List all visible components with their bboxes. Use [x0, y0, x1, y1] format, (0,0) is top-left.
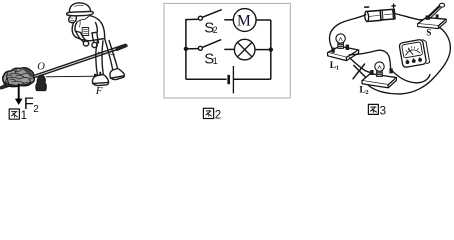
wire top branch left — [185, 18, 198, 20]
label S2 — [204, 20, 217, 37]
battery pack — [364, 4, 395, 22]
lamp L1 — [328, 34, 359, 61]
fulcrum — [36, 75, 47, 90]
svg-text:3: 3 — [380, 105, 386, 117]
rock A — [3, 68, 35, 88]
worker hard hat — [67, 3, 94, 16]
arrow F2 — [15, 85, 22, 105]
wire mid branch right — [255, 49, 271, 51]
wire L1 to L2 (to be cut) — [350, 58, 371, 73]
worker torso — [72, 16, 105, 41]
worker legs — [96, 39, 118, 76]
horizontal arrow from fulcrum — [47, 74, 100, 79]
junction left — [184, 47, 188, 51]
label 图1 — [9, 109, 27, 122]
label S1 — [204, 50, 218, 67]
svg-text:O: O — [37, 62, 45, 73]
worker shoes — [92, 69, 124, 86]
svg-text:1: 1 — [213, 56, 218, 66]
svg-text:M: M — [237, 12, 251, 29]
svg-text:A: A — [3, 77, 11, 88]
frame box — [164, 3, 290, 98]
wire bottom right — [233, 78, 270, 80]
wire left vertical — [185, 20, 187, 80]
svg-text:2: 2 — [365, 89, 368, 96]
wire right vertical — [270, 20, 272, 79]
wire L2 front to switch (bottom swoop and right arc) — [368, 26, 450, 94]
label 图3 — [368, 104, 386, 117]
wire battery- to L1 — [329, 15, 365, 49]
svg-text:2: 2 — [33, 104, 39, 115]
switch S2 — [198, 10, 233, 21]
label L1 — [330, 61, 339, 71]
wire L2 right terminal to ammeter — [393, 71, 430, 83]
wire battery+ to switch — [395, 14, 423, 20]
break mark X — [353, 64, 366, 79]
switch S — [418, 3, 447, 28]
wire bottom left — [186, 78, 227, 80]
wire top branch right — [256, 19, 271, 21]
worker arms — [75, 22, 99, 48]
worker head/face — [69, 16, 77, 23]
wire L1 over to L2 right terminal — [349, 50, 390, 70]
svg-text:F: F — [95, 85, 103, 97]
svg-text:S: S — [426, 27, 431, 37]
lever bar — [1, 44, 127, 88]
small down arrow F — [98, 73, 103, 84]
label L2 — [359, 86, 368, 96]
label 图2 — [203, 108, 221, 121]
ammeter — [399, 39, 430, 68]
svg-text:1: 1 — [21, 110, 27, 121]
junction right — [269, 47, 273, 51]
lamp L2 — [362, 62, 396, 88]
switch S1 — [198, 40, 234, 51]
motor M — [233, 9, 256, 32]
wire mid branch left — [186, 48, 199, 50]
svg-text:2: 2 — [213, 25, 218, 35]
svg-text:1: 1 — [336, 64, 339, 71]
battery — [229, 66, 234, 93]
svg-text:2: 2 — [215, 109, 221, 121]
lamp — [234, 39, 255, 60]
